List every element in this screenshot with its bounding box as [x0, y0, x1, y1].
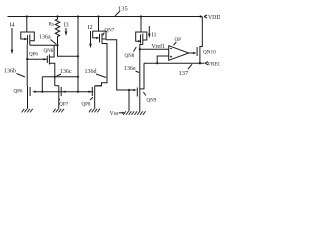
current arrow I2 [88, 25, 93, 48]
svg-text:QN8: QN8 [125, 54, 135, 59]
svg-text:136a: 136a [39, 35, 51, 41]
svg-text:QP8: QP8 [82, 102, 91, 107]
resistor Rs [49, 17, 60, 46]
svg-text:QP6: QP6 [29, 52, 38, 57]
wire node B down to QP6 [26, 59, 28, 86]
current arrow I4 [10, 22, 15, 54]
transistor QN6 [43, 45, 55, 85]
wire output line VREG [144, 62, 205, 64]
transistor QP7 (bottom-middle) [55, 86, 69, 109]
wire branch D feed from rail [140, 17, 142, 33]
transistor QP6 (top-left current mirror) [21, 32, 39, 57]
transistor QN9 [133, 87, 156, 112]
wire mid horizontal node line y76 [42, 76, 78, 78]
node dot B [26, 58, 28, 60]
svg-text:I3: I3 [64, 22, 69, 28]
VREG terminal arrow and label [205, 62, 222, 68]
label 136a with leader [39, 35, 56, 45]
wire branch A feed from rail [26, 17, 28, 33]
wire op-amp output to QN10 gate [189, 52, 194, 54]
label Vss with arrow [110, 111, 125, 117]
label 136d with leader [85, 69, 107, 78]
svg-text:QP7: QP7 [59, 102, 68, 107]
svg-text:QN10: QN10 [203, 49, 216, 55]
svg-text:Vss: Vss [110, 111, 119, 117]
label 136b with leader [4, 69, 25, 78]
node dot A [56, 44, 58, 46]
node dot branch B at y56 [77, 55, 79, 57]
node dot QN10 source [199, 62, 201, 64]
label 135 with leader [115, 5, 128, 16]
transistor QP6 (bottom-left) [14, 86, 36, 109]
ground under QP6 [22, 109, 33, 113]
ground under QP7 [53, 109, 64, 113]
wire branch C feed from rail [98, 17, 100, 32]
wire VDD top rail [8, 16, 203, 18]
svg-text:QN7: QN7 [105, 29, 115, 34]
label 137 with leader [179, 64, 193, 77]
node dot on y76 at QP7 feed [54, 76, 56, 78]
arrowhead QN10 gate [193, 52, 196, 54]
wire QN9 gate stub to ground [128, 90, 130, 111]
node dot gate row at branch B [77, 91, 79, 93]
op-amp input polarity marks [170, 49, 172, 58]
wire node A line (QP6 source to resistor foot) [30, 44, 58, 46]
svg-text:QN9: QN9 [147, 99, 157, 104]
node dot on y76 at branch B [77, 76, 79, 78]
ground under QP8 [89, 109, 100, 113]
svg-text:I1: I1 [152, 33, 157, 39]
ground at QN9 source [134, 111, 145, 115]
node junction dots on rail [26, 15, 202, 17]
wire QP6 gate down to node B [26, 44, 28, 59]
label 136c with leader [57, 69, 73, 76]
current arrow I1 [148, 26, 157, 39]
transistor QP8 (bottom of branch C) [82, 83, 102, 109]
svg-text:136e: 136e [124, 66, 136, 72]
ground at QN9 gate [123, 111, 134, 115]
wire left drop to gate row [41, 77, 43, 92]
wire node B to QN6 gate [27, 58, 47, 60]
svg-text:136b: 136b [4, 69, 16, 75]
wire Vref1 line to op-amp input [140, 43, 169, 50]
wire QN7 drain to QN9 gate (mirror) [106, 40, 133, 90]
wire VDD drop to QN10 drain [200, 17, 202, 47]
svg-text:137: 137 [179, 70, 190, 77]
node dot QN9 gate ground tap [128, 89, 130, 91]
node dot feedback tap [156, 62, 158, 64]
svg-text:QP6: QP6 [14, 90, 23, 95]
wire feedback to op-amp lower input [157, 56, 169, 63]
svg-text:VDD: VDD [208, 15, 220, 21]
transistor QN8 [125, 32, 147, 87]
wire gate row y91 [35, 91, 94, 93]
svg-text:136d: 136d [85, 69, 97, 75]
label 136e with leader [124, 66, 139, 73]
node dot Vref [139, 48, 141, 50]
svg-text:136c: 136c [60, 69, 72, 75]
transistor QN7 (top-middle) [93, 29, 115, 86]
wire node A down and right to branch B [58, 45, 79, 56]
svg-text:Vref1: Vref1 [152, 43, 166, 50]
VDD terminal arrow and label [204, 15, 220, 21]
svg-text:I4: I4 [10, 22, 15, 28]
svg-text:I2: I2 [88, 25, 93, 31]
wire branch B from rail down [77, 17, 79, 92]
current arrow I3 [64, 22, 69, 36]
svg-text:QN6: QN6 [44, 49, 54, 54]
node dot gate row at left drop [41, 91, 43, 93]
svg-text:VREG: VREG [207, 62, 220, 68]
wire QN9 drain riser to output line [140, 63, 144, 89]
transistor QN10 [197, 46, 216, 63]
svg-text:Rs: Rs [49, 22, 54, 28]
op-amp OP [169, 38, 189, 60]
